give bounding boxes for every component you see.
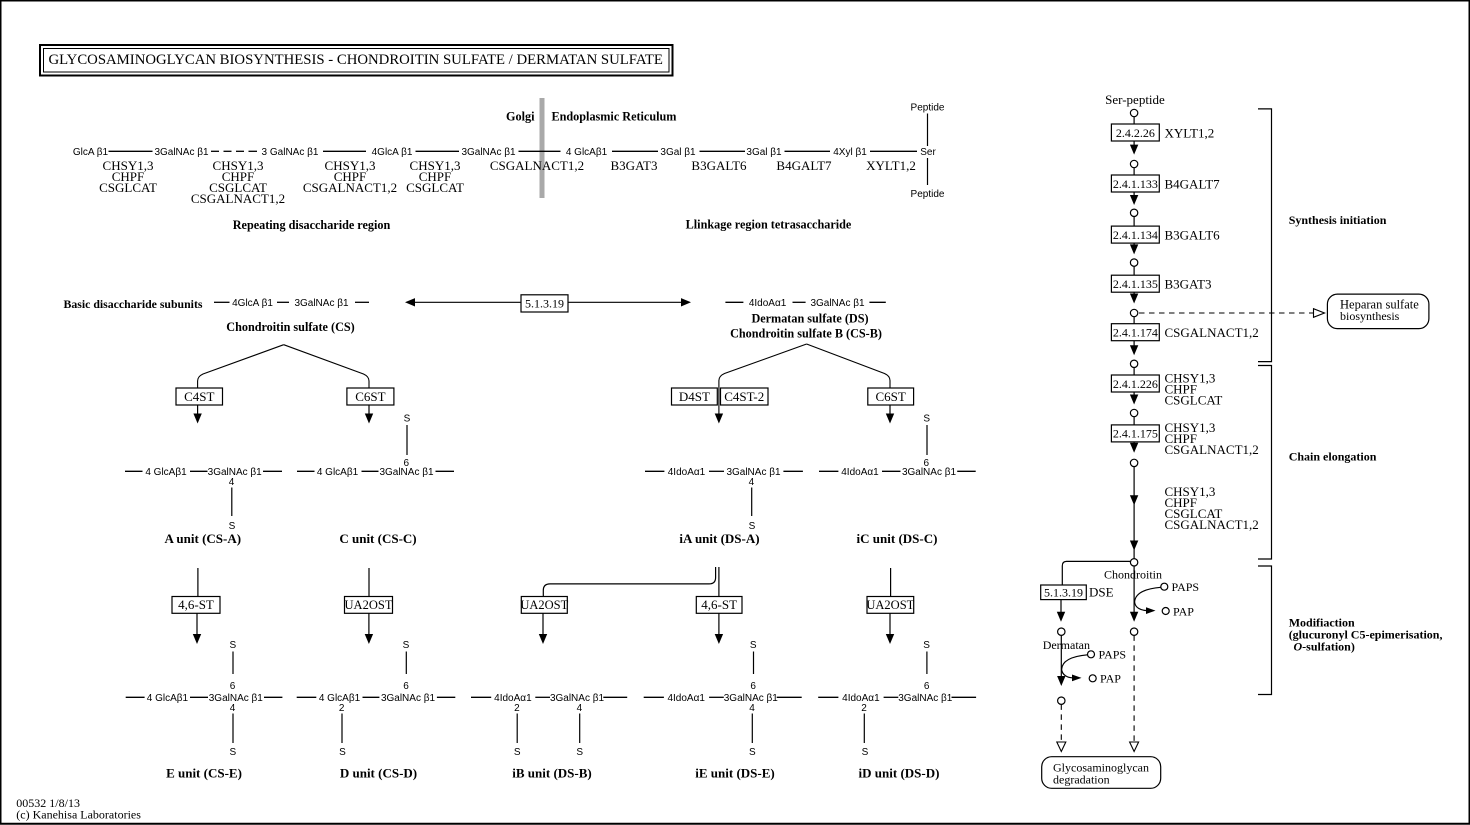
svg-text:GLYCOSAMINOGLYCAN BIOSYNTHESIS: GLYCOSAMINOGLYCAN BIOSYNTHESIS - CHONDRO… [49, 52, 663, 68]
svg-text:6: 6 [750, 681, 756, 692]
svg-text:PAP: PAP [1100, 672, 1121, 686]
enzyme box UA2OST (CS-D) [345, 597, 393, 614]
wire through gap between D4ST and C4ST-2 [718, 388, 720, 416]
svg-text:CSGALNACT1,2: CSGALNACT1,2 [191, 191, 285, 206]
svg-text:4 GlcAβ1: 4 GlcAβ1 [566, 147, 608, 158]
svg-text:6: 6 [404, 458, 410, 469]
cofactor PAP circle [1162, 608, 1169, 615]
enzyme box UA2OST (DS-B) [520, 597, 568, 614]
cofactor curve out with arrowhead (dermatan) [1062, 670, 1072, 678]
svg-text:(c) Kanehisa Laboratories: (c) Kanehisa Laboratories [16, 808, 141, 822]
enzyme box 4,6-ST (CS-E) [172, 597, 220, 614]
wire [1133, 168, 1135, 175]
svg-text:3GalNAc β1: 3GalNAc β1 [810, 298, 865, 309]
enzyme labels at x=435 [406, 158, 464, 195]
svg-text:2.4.1.175: 2.4.1.175 [1113, 427, 1158, 441]
dashed link to heparan sulfate biosynthesis [1139, 312, 1313, 314]
svg-text:XYLT1,2: XYLT1,2 [866, 158, 916, 173]
rounded box heparan sulfate biosynthesis [1327, 294, 1429, 329]
wire iC unit to UA2OST [890, 568, 892, 597]
svg-text:S: S [750, 640, 757, 651]
arrow to unit at x=543 [539, 613, 547, 644]
enzyme labels at x=128 [99, 158, 157, 195]
svg-text:DSE: DSE [1089, 585, 1114, 600]
bracket modification [1258, 566, 1272, 695]
iE unit (DS-E) chain [644, 640, 802, 781]
enzyme labels for 2.4.1.134 [1165, 227, 1221, 242]
svg-text:3Gal β1: 3Gal β1 [746, 147, 782, 158]
svg-text:2.4.1.226: 2.4.1.226 [1113, 377, 1158, 391]
node circle [1130, 409, 1137, 416]
node circle [1130, 259, 1137, 266]
svg-text:3GalNAc β1: 3GalNAc β1 [294, 298, 349, 309]
chondroitin sulfation arrow [1130, 566, 1138, 622]
enzyme labels at x=238 [191, 158, 285, 206]
dashed wire dermatan to degradation [1060, 704, 1062, 741]
wire [1133, 117, 1135, 124]
svg-text:3GalNAc β1: 3GalNAc β1 [209, 693, 264, 704]
svg-text:3GalNAc β1: 3GalNAc β1 [902, 467, 957, 478]
cofactor PAPS circle (dermatan) [1088, 651, 1095, 658]
cofactor PAP circle (dermatan) [1089, 675, 1096, 682]
arrow D4ST/C4ST-2 to iA unit [715, 414, 723, 424]
enzyme labels for 2.4.1.175 [1165, 420, 1259, 457]
bracket chain elongation [1258, 366, 1272, 560]
enzyme labels for 2.4.2.26 [1165, 125, 1215, 140]
svg-text:CSGLCAT: CSGLCAT [406, 180, 464, 195]
svg-text:B4GALT7: B4GALT7 [776, 158, 832, 173]
svg-text:Chondroitin sulfate B (CS-B): Chondroitin sulfate B (CS-B) [730, 327, 882, 341]
rounded box glycosaminoglycan degradation [1042, 757, 1161, 789]
svg-text:4 GlcAβ1: 4 GlcAβ1 [145, 467, 187, 478]
svg-text:5.1.3.19: 5.1.3.19 [525, 297, 564, 311]
svg-text:CSGALNACT1,2: CSGALNACT1,2 [1165, 325, 1259, 340]
svg-text:3Gal β1: 3Gal β1 [660, 147, 696, 158]
svg-text:S: S [923, 414, 930, 425]
node chondroitin [1130, 559, 1137, 566]
svg-text:6: 6 [403, 681, 409, 692]
svg-text:E unit (CS-E): E unit (CS-E) [166, 766, 242, 781]
svg-text:6: 6 [924, 681, 930, 692]
node circle [1130, 360, 1137, 367]
reaction arrow [1130, 292, 1138, 303]
svg-text:B3GAT3: B3GAT3 [611, 158, 658, 173]
svg-text:Ser: Ser [920, 147, 936, 158]
CS basic disaccharide chain [214, 298, 369, 309]
enzyme labels at x=634 [611, 158, 658, 173]
svg-text:XYLT1,2: XYLT1,2 [1165, 125, 1215, 140]
hollow arrowhead [1130, 742, 1139, 752]
svg-text:C unit (CS-C): C unit (CS-C) [339, 531, 416, 546]
svg-text:S: S [404, 414, 411, 425]
enzyme labels for 2.4.1.226 [1165, 370, 1223, 407]
svg-text:Chondroitin sulfate (CS): Chondroitin sulfate (CS) [226, 320, 354, 334]
svg-text:2.4.1.134: 2.4.1.134 [1113, 228, 1158, 242]
cofactor curve in (dermatan) [1062, 655, 1088, 670]
svg-text:B3GAT3: B3GAT3 [1165, 277, 1212, 292]
svg-text:2: 2 [339, 703, 345, 714]
svg-text:Synthesis initiation: Synthesis initiation [1289, 213, 1387, 227]
svg-text:3GalNAc β1: 3GalNAc β1 [208, 467, 263, 478]
svg-text:4IdoAα1: 4IdoAα1 [494, 693, 532, 704]
wire iA unit to 4,6-ST [718, 567, 720, 597]
hollow arrowhead [1057, 742, 1066, 752]
svg-text:4IdoAα1: 4IdoAα1 [749, 298, 787, 309]
wire C unit to UA2OST [368, 568, 370, 597]
enzyme labels at x=804 [776, 158, 832, 173]
arrow C4ST to A unit [193, 405, 201, 424]
svg-text:S: S [229, 640, 236, 651]
svg-text:CSGALNACT1,2: CSGALNACT1,2 [303, 180, 397, 195]
wire [1133, 368, 1135, 376]
svg-text:Ser-peptide: Ser-peptide [1105, 92, 1165, 107]
enzyme labels at x=350 [303, 158, 397, 195]
svg-text:D unit (CS-D): D unit (CS-D) [340, 766, 417, 781]
hollow arrowhead [1314, 309, 1325, 318]
svg-text:4GlcA β1: 4GlcA β1 [372, 147, 413, 158]
node chondroitin sulfated [1130, 628, 1137, 635]
iC unit (DS-C) chain [819, 414, 976, 547]
svg-text:A unit (CS-A): A unit (CS-A) [165, 531, 242, 546]
elongation enzyme labels [1165, 484, 1259, 532]
svg-text:Repeating disaccharide region: Repeating disaccharide region [233, 218, 391, 232]
svg-text:3GalNAc β1: 3GalNAc β1 [898, 693, 953, 704]
enzyme labels at x=537 [490, 158, 584, 173]
svg-text:4IdoAα1: 4IdoAα1 [668, 467, 706, 478]
wire [1133, 217, 1135, 227]
svg-text:GlcA β1: GlcA β1 [73, 147, 109, 158]
svg-text:S: S [862, 747, 869, 758]
svg-text:4GlcA β1: 4GlcA β1 [232, 298, 273, 309]
svg-text:4 GlcAβ1: 4 GlcAβ1 [317, 467, 359, 478]
svg-text:CSGALNACT1,2: CSGALNACT1,2 [1165, 442, 1259, 457]
Golgi/ER membrane bar [540, 98, 545, 198]
svg-text:Peptide: Peptide [911, 189, 945, 200]
svg-text:Basic disaccharide subunits: Basic disaccharide subunits [64, 297, 203, 311]
svg-text:S: S [923, 640, 930, 651]
CS branch lines [198, 345, 284, 388]
bracket synthesis initiation [1258, 109, 1272, 362]
svg-text:4 GlcAβ1: 4 GlcAβ1 [147, 693, 189, 704]
chain elongation long arrow [1130, 467, 1138, 559]
enzyme labels for 2.4.1.174 [1165, 325, 1259, 340]
epimerisation double arrow 5.1.3.19 [405, 298, 691, 306]
svg-text:S: S [749, 747, 756, 758]
E unit (CS-E) chain [126, 640, 283, 781]
EC box 2.4.1.226 [1111, 375, 1159, 392]
svg-text:PAPS: PAPS [1172, 580, 1200, 594]
iA unit (DS-A) chain [645, 467, 803, 546]
svg-text:5.1.3.19: 5.1.3.19 [1044, 586, 1083, 600]
A unit (CS-A) chain [125, 467, 282, 546]
svg-text:S: S [339, 747, 346, 758]
svg-text:S: S [229, 747, 236, 758]
svg-text:CSGALNACT1,2: CSGALNACT1,2 [490, 158, 584, 173]
label modification [1289, 616, 1443, 654]
svg-text:6: 6 [924, 458, 930, 469]
EC box 2.4.2.26 [1111, 124, 1159, 141]
reaction arrow [1130, 141, 1138, 155]
enzyme labels at x=719 [691, 158, 747, 173]
svg-text:S: S [514, 747, 521, 758]
svg-text:UA2OST: UA2OST [866, 598, 914, 612]
svg-text:B3GALT6: B3GALT6 [691, 158, 747, 173]
svg-text:3GalNAc β1: 3GalNAc β1 [154, 147, 209, 158]
iD unit (DS-D) chain [818, 640, 976, 781]
svg-text:6: 6 [230, 681, 236, 692]
enzyme box D4ST [672, 388, 718, 405]
arrow to unit at x=197 [193, 613, 201, 644]
svg-text:O-sulfation): O-sulfation) [1294, 640, 1355, 654]
svg-text:4: 4 [749, 703, 755, 714]
svg-text:PAP: PAP [1173, 605, 1194, 619]
EC box 5.1.3.19 DSE [1041, 585, 1087, 600]
node dermatan [1058, 628, 1065, 635]
svg-text:4: 4 [230, 703, 236, 714]
cofactor PAPS circle [1161, 583, 1168, 590]
C unit (CS-C) chain [297, 414, 454, 547]
svg-text:3 GalNAc β1: 3 GalNAc β1 [262, 147, 319, 158]
arrow to unit at x=718.9 [715, 613, 723, 644]
wire A unit to 4,6-ST [197, 568, 199, 597]
DS branch lines [719, 344, 807, 388]
svg-text:4: 4 [577, 703, 583, 714]
title box [40, 45, 673, 76]
cofactor curve out with arrowhead [1135, 602, 1146, 611]
EC box 2.4.1.133 [1111, 175, 1159, 192]
enzyme box C6ST (DS) [868, 388, 914, 405]
iB unit (DS-B) chain [471, 693, 627, 781]
reaction arrow [1130, 341, 1138, 356]
EC box 2.4.1.174 [1111, 324, 1159, 341]
enzyme labels for 2.4.1.135 [1165, 277, 1212, 292]
svg-text:iD unit (DS-D): iD unit (DS-D) [859, 766, 940, 781]
top polymer chain [73, 147, 937, 158]
node dermatan sulfated [1058, 697, 1065, 704]
svg-text:4: 4 [229, 477, 235, 488]
svg-text:2.4.1.133: 2.4.1.133 [1113, 177, 1158, 191]
svg-text:Peptide: Peptide [911, 103, 945, 114]
node circle [1130, 209, 1137, 216]
arrow to unit at x=890 [886, 613, 894, 644]
enzyme box 4,6-ST (DS-E) [696, 597, 742, 614]
svg-text:biosynthesis: biosynthesis [1340, 309, 1400, 323]
svg-text:3GalNAc β1: 3GalNAc β1 [381, 693, 436, 704]
dashed wire chondroitin to degradation [1133, 635, 1135, 741]
svg-text:Dermatan sulfate (DS): Dermatan sulfate (DS) [751, 312, 868, 326]
svg-text:PAPS: PAPS [1099, 648, 1127, 662]
wire [1133, 266, 1135, 275]
node circle [1130, 309, 1137, 316]
svg-text:iA unit (DS-A): iA unit (DS-A) [679, 531, 759, 546]
arrow C6ST to iC unit [886, 405, 894, 424]
cofactor curve in [1135, 587, 1161, 602]
svg-text:2: 2 [861, 703, 867, 714]
svg-text:degradation: degradation [1053, 773, 1110, 787]
svg-text:4: 4 [749, 477, 755, 488]
svg-text:B4GALT7: B4GALT7 [1165, 176, 1221, 191]
reaction arrow [1130, 243, 1138, 254]
enzyme box 5.1.3.19 [521, 295, 568, 312]
svg-text:C4ST-2: C4ST-2 [724, 389, 764, 404]
enzyme box UA2OST (DS-D) [866, 597, 914, 614]
svg-text:CSGALNACT1,2: CSGALNACT1,2 [1165, 517, 1259, 532]
svg-text:Llinkage region tetrasaccharid: Llinkage region tetrasaccharide [686, 218, 852, 232]
svg-text:Endoplasmic Reticulum: Endoplasmic Reticulum [552, 110, 677, 124]
wire [1133, 417, 1135, 425]
node circle [1130, 160, 1137, 167]
svg-text:C6ST: C6ST [876, 389, 906, 404]
EC box 2.4.1.135 [1111, 275, 1159, 292]
reaction arrow [1130, 392, 1138, 405]
svg-text:4,6-ST: 4,6-ST [701, 597, 737, 612]
node circle [1130, 459, 1137, 466]
svg-text:4IdoAα1: 4IdoAα1 [841, 467, 879, 478]
wire iA unit elbow to UA2OST (iB) [543, 567, 715, 597]
svg-text:iB unit (DS-B): iB unit (DS-B) [512, 766, 591, 781]
svg-text:UA2OST: UA2OST [520, 598, 568, 612]
svg-text:4Xyl β1: 4Xyl β1 [833, 147, 867, 158]
svg-text:2.4.2.26: 2.4.2.26 [1116, 126, 1155, 140]
enzyme labels at x=891 [866, 158, 916, 173]
enzyme box C4ST [176, 388, 223, 405]
DS basic disaccharide chain [725, 298, 885, 309]
svg-text:CSGLCAT: CSGLCAT [1165, 392, 1223, 407]
svg-text:4,6-ST: 4,6-ST [178, 597, 214, 612]
enzyme box C4ST-2 [721, 388, 769, 405]
svg-text:3GalNAc β1: 3GalNAc β1 [461, 147, 516, 158]
svg-text:2: 2 [514, 703, 520, 714]
arrow C6ST to C unit [365, 405, 373, 424]
D unit (CS-D) chain [297, 640, 456, 781]
arrow to unit at x=368.9 [365, 613, 373, 644]
EC box 2.4.1.175 [1111, 425, 1159, 442]
svg-text:iC unit (DS-C): iC unit (DS-C) [857, 531, 938, 546]
reaction arrow [1130, 442, 1138, 453]
dermatan sulfation arrow [1057, 635, 1065, 686]
svg-text:C4ST: C4ST [184, 389, 214, 404]
svg-text:2.4.1.135: 2.4.1.135 [1113, 277, 1158, 291]
node circle 1 [1130, 109, 1137, 116]
svg-text:S: S [403, 640, 410, 651]
wire chondroitin to DSE box [1062, 561, 1130, 585]
svg-text:Chain elongation: Chain elongation [1289, 450, 1377, 464]
enzyme labels for 2.4.1.133 [1165, 176, 1221, 191]
arrow DSE to dermatan [1057, 600, 1065, 622]
svg-text:C6ST: C6ST [355, 389, 385, 404]
EC box 2.4.1.134 [1111, 226, 1159, 243]
reaction arrow [1130, 192, 1138, 205]
svg-text:2.4.1.174: 2.4.1.174 [1113, 326, 1158, 340]
enzyme box C6ST [347, 388, 394, 405]
svg-text:D4ST: D4ST [679, 389, 710, 404]
svg-text:Golgi: Golgi [506, 110, 535, 124]
svg-text:CSGLCAT: CSGLCAT [99, 180, 157, 195]
svg-text:iE unit (DS-E): iE unit (DS-E) [695, 766, 774, 781]
svg-text:UA2OST: UA2OST [345, 598, 393, 612]
svg-text:Dermatan: Dermatan [1043, 638, 1090, 652]
svg-text:S: S [576, 747, 583, 758]
svg-text:Chondroitin: Chondroitin [1104, 568, 1162, 582]
svg-text:4IdoAα1: 4IdoAα1 [667, 693, 705, 704]
svg-text:B3GALT6: B3GALT6 [1165, 227, 1221, 242]
wire [1133, 317, 1135, 324]
